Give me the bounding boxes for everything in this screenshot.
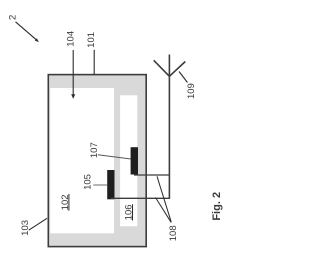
antenna 109 left arm: [154, 60, 170, 76]
svg-text:109: 109: [186, 83, 197, 99]
leader line 104 with arrowhead: [72, 50, 74, 95]
cavity 102 (white interior): [50, 88, 114, 233]
leader lines 108: [157, 176, 171, 222]
leader line 105: [93, 184, 107, 186]
svg-text:105: 105: [83, 174, 94, 190]
antenna element 107 (black bar): [131, 147, 138, 174]
leader line 101: [93, 50, 95, 75]
feed wire from 107: [134, 174, 169, 176]
leader line 107: [98, 155, 131, 159]
antenna 109 feed line (vertical): [168, 55, 170, 199]
arrow from label 2: [16, 22, 37, 40]
housing outer rectangle 101/103: [48, 75, 146, 247]
antenna 109 right arm: [169, 62, 185, 77]
antenna element 105 (black bar): [107, 170, 114, 199]
leader line 109: [179, 72, 188, 83]
svg-text:107: 107: [89, 142, 100, 158]
svg-text:104: 104: [65, 31, 76, 47]
svg-text:2: 2: [8, 15, 19, 20]
leader line 103: [29, 218, 47, 230]
svg-text:103: 103: [20, 220, 31, 236]
svg-text:101: 101: [86, 32, 97, 48]
slot 106 (white strip): [120, 95, 137, 226]
svg-text:Fig. 2: Fig. 2: [211, 192, 223, 221]
feed wire from 105: [111, 197, 169, 199]
svg-text:108: 108: [168, 225, 179, 241]
